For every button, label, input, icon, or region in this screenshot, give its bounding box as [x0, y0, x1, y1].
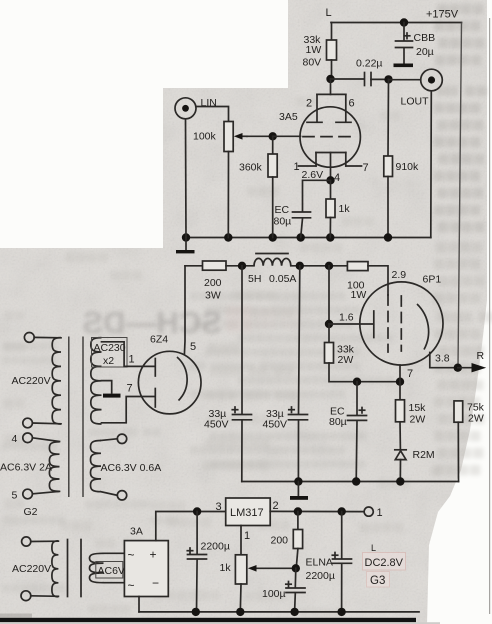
svg-text:−: −: [152, 576, 159, 590]
inductor choke 5H 0.05A: [248, 254, 296, 286]
svg-text:AC6.3V 2A: AC6.3V 2A: [0, 462, 52, 474]
wire bridge plus up: [156, 512, 226, 541]
node input cap dot: [193, 507, 201, 515]
regulator LM317: [226, 498, 271, 526]
node LOUT junction: [384, 75, 392, 83]
svg-text:3W: 3W: [205, 290, 221, 302]
cathode arc 6P1: [417, 304, 429, 350]
svg-text:3A: 3A: [130, 526, 143, 538]
capacitor 33u 450V first: [204, 266, 252, 482]
svg-text:+175V: +175V: [426, 9, 459, 21]
potentiometer 1k: [220, 555, 247, 584]
svg-text:6: 6: [349, 98, 355, 110]
winding AC6V: [90, 553, 104, 582]
svg-text:1W: 1W: [306, 44, 322, 56]
svg-text:CBB: CBB: [414, 32, 436, 44]
wire upper ground bus: [184, 237, 431, 239]
wire AC6V to bridge top: [104, 552, 125, 554]
wire 1k bottom to bus: [239, 584, 242, 612]
svg-text:2: 2: [306, 98, 312, 110]
bottom black strip: [0, 618, 416, 622]
svg-text:7: 7: [363, 162, 369, 174]
ground lower bus: [290, 482, 308, 500]
faint pink reverse-page title: [82, 305, 301, 340]
svg-text:1.6: 1.6: [339, 312, 354, 324]
resistor 200: [271, 512, 303, 569]
svg-text:LOUT: LOUT: [401, 96, 430, 108]
ground upper bus: [176, 238, 195, 254]
node grid 6P1: [325, 320, 333, 328]
node bus dot 910k ground: [384, 233, 392, 241]
node lower bus dot EC: [352, 477, 360, 485]
wire to choke: [226, 265, 254, 267]
svg-text:L: L: [371, 543, 376, 553]
capacitor ELNA 2200u: [306, 512, 352, 612]
terminal output 1: [364, 507, 373, 516]
svg-text:~: ~: [128, 579, 135, 593]
bridge rectifier 3A: [124, 526, 168, 597]
capacitor EC 80u lower: [329, 382, 367, 482]
transformer T2 terminal top: [22, 537, 31, 546]
svg-text:L: L: [326, 7, 332, 19]
capacitor 100u: [262, 568, 305, 612]
wire top supply rail: [331, 22, 462, 24]
diode R2M: [395, 449, 435, 482]
svg-text:1: 1: [294, 161, 300, 173]
svg-text:5H: 5H: [248, 273, 261, 285]
node EC dot: [353, 378, 361, 386]
wire terminal bottom: [32, 422, 61, 425]
pin 7 wire: [346, 165, 362, 167]
label box AC230 x2: [92, 338, 128, 368]
plate bar 2 6Z4: [154, 389, 156, 408]
wire cap to LOUT node: [371, 78, 389, 80]
node cathode junction: [326, 176, 334, 184]
wire winding to terminal bottom right: [101, 492, 117, 496]
svg-text:x2: x2: [103, 355, 114, 367]
node 200 dot: [294, 507, 302, 515]
transformer T2 terminal bottom: [21, 591, 31, 601]
svg-text:R2M: R2M: [413, 449, 435, 461]
transformer T1 primary terminal bottom: [23, 418, 33, 428]
jack LIN: [175, 97, 217, 119]
wire to winding: [31, 540, 59, 542]
node wiper dot: [292, 564, 300, 572]
svg-text:AC220V: AC220V: [12, 375, 51, 387]
svg-text:2200µ: 2200µ: [306, 570, 335, 582]
pin 1 wire: [299, 165, 317, 167]
resistor 75k 2W: [454, 401, 485, 482]
svg-text:360k: 360k: [239, 162, 263, 174]
wire cathode 6Z4 to rail: [183, 266, 186, 355]
plate bar 1 6Z4: [154, 359, 156, 377]
ground bar center tap: [103, 394, 121, 398]
wire to LOUT jack: [389, 79, 421, 81]
svg-text:80µ: 80µ: [274, 216, 292, 228]
winding AC220V primary T1: [52, 338, 61, 424]
grid1 bar 6P1: [373, 311, 375, 338]
wire secondary top to plate1: [102, 342, 155, 367]
wire LIN to pot: [196, 107, 229, 122]
node bus dot EC ground: [297, 233, 305, 241]
wire rail to tube top: [368, 266, 388, 295]
tube 6P1 envelope: [360, 282, 443, 365]
wire B+ rail from rectifier: [185, 265, 203, 267]
svg-text:AC6V: AC6V: [98, 565, 125, 577]
svg-text:+: +: [150, 548, 157, 562]
node bus dot 1k ground: [326, 233, 334, 241]
svg-text:100k: 100k: [193, 131, 217, 143]
wire bottom: [31, 595, 59, 598]
wire terminal 4: [32, 438, 59, 442]
resistor 100 1W screen: [347, 262, 368, 301]
svg-text:2200µ: 2200µ: [201, 541, 230, 553]
node anode junction: [326, 75, 334, 83]
svg-text:0.22µ: 0.22µ: [356, 58, 383, 70]
node lower bus dot R2M: [396, 477, 404, 485]
wire secondary bottom to plate2: [102, 397, 155, 423]
wire terminal to winding: [34, 336, 61, 338]
cathode arc 6Z4: [177, 357, 187, 401]
wiper arrow 1k: [248, 565, 296, 572]
svg-text:0.05A: 0.05A: [269, 273, 296, 285]
node bottom bus dot ELNA: [337, 608, 345, 616]
resistor 200 3W: [203, 261, 227, 302]
svg-text:R: R: [477, 350, 485, 362]
wire pot bottom to bus: [227, 152, 229, 238]
resistor 15k 2W: [396, 382, 427, 449]
svg-text:200: 200: [271, 535, 289, 547]
svg-text:2: 2: [273, 500, 279, 512]
winding AC220V T2: [52, 541, 59, 597]
node bus dot 360k ground: [269, 233, 277, 241]
faint vertical line right edge: [489, 18, 491, 614]
center tap wire: [102, 381, 112, 393]
wire rail to grid node: [328, 266, 330, 324]
svg-text:DC2.8V: DC2.8V: [365, 557, 404, 569]
svg-text:1: 1: [377, 507, 383, 519]
node rail dot C: [325, 262, 333, 270]
node output junction: [454, 364, 462, 372]
wire LIN ground down: [185, 119, 188, 238]
svg-text:6Z4: 6Z4: [150, 334, 168, 346]
svg-text:910k: 910k: [396, 161, 420, 173]
svg-text:G2: G2: [24, 506, 38, 518]
svg-text:1: 1: [129, 354, 135, 366]
node bottom bus dot 1k pot: [236, 608, 244, 616]
capacitor 2200u input: [187, 512, 230, 612]
resistor 360k: [239, 136, 277, 237]
svg-text:2.6V: 2.6V: [302, 169, 324, 181]
tube 6Z4 envelope: [138, 351, 201, 414]
wire cathode return: [357, 381, 400, 383]
node rail dot B: [296, 262, 304, 270]
node cathode dot: [396, 378, 404, 386]
svg-text:EC: EC: [275, 204, 290, 216]
wire LM317 adj: [240, 526, 242, 555]
jack LOUT: [401, 69, 443, 107]
svg-text:3A5: 3A5: [279, 111, 298, 123]
arrow R output: [458, 350, 486, 372]
wire bridge minus down: [138, 597, 140, 612]
resistor 1k cathode: [326, 180, 350, 237]
terminal heater bottom: [117, 491, 126, 500]
svg-text:LM317: LM317: [230, 507, 264, 519]
svg-text:7: 7: [127, 383, 133, 395]
wiper arrow into pot: [234, 133, 273, 140]
wire lower ground bus: [242, 481, 459, 483]
terminal heater top: [117, 434, 126, 443]
svg-text:450V: 450V: [263, 419, 288, 431]
svg-text:20µ: 20µ: [416, 46, 434, 58]
wire AC6V to bridge bottom: [104, 582, 125, 584]
grid dashed 3A5: [303, 136, 356, 138]
svg-text:80µ: 80µ: [329, 416, 347, 428]
svg-text:6P1: 6P1: [423, 274, 442, 286]
svg-text:4: 4: [334, 172, 340, 184]
resistor 33k 2W: [325, 324, 358, 382]
resistor 33k 1W 80V: [303, 23, 337, 77]
node grid junction: [269, 132, 277, 140]
wire right vertical +175V feed: [458, 23, 462, 369]
node bottom bus dot 2200u: [192, 608, 200, 616]
wire grid node to 6P1: [329, 323, 373, 325]
svg-text:80V: 80V: [303, 57, 322, 69]
svg-text:3: 3: [216, 501, 222, 513]
svg-text:AC6.3V 0.6A: AC6.3V 0.6A: [101, 462, 162, 474]
svg-text:3.8: 3.8: [435, 353, 450, 365]
wire grid to 3A5: [273, 135, 301, 137]
node rail dot A: [238, 262, 246, 270]
filament structure 3A5: [316, 153, 346, 181]
capacitor 0.22u: [356, 58, 383, 86]
winding AC6.3V 0.6A: [91, 441, 102, 492]
core T2: [67, 540, 69, 597]
wire choke to rail: [291, 265, 348, 267]
svg-text:450V: 450V: [204, 419, 229, 431]
capacitor CBB 20u: [396, 23, 436, 64]
wire terminal 5: [32, 491, 59, 493]
tube 3A5 envelope: [300, 107, 360, 167]
svg-text:200: 200: [204, 277, 222, 289]
grid3 dashed 6P1: [400, 296, 402, 351]
terminal 5: [23, 489, 33, 499]
node bus dot pot ground: [224, 233, 232, 241]
winding AC6.3V 2A: [49, 442, 59, 492]
svg-text:15k: 15k: [409, 402, 427, 414]
svg-text:1W: 1W: [351, 289, 367, 301]
label DC2.8V: [363, 553, 406, 571]
svg-text:G3: G3: [370, 575, 385, 587]
svg-text:7: 7: [407, 368, 413, 380]
wire bottom ground bus: [139, 611, 419, 613]
node junction top: [400, 18, 408, 26]
svg-text:5: 5: [12, 490, 18, 502]
node ELNA dot: [338, 507, 346, 515]
wire winding to terminal top right: [101, 439, 117, 441]
svg-text:4: 4: [12, 433, 18, 445]
terminal 4: [23, 433, 33, 443]
svg-text:2W: 2W: [338, 354, 354, 366]
resistor 910k: [384, 79, 419, 237]
wire LM317 output: [270, 510, 364, 512]
svg-text:5: 5: [190, 341, 196, 353]
svg-text:AC220V: AC220V: [12, 563, 51, 575]
svg-text:~: ~: [128, 548, 135, 562]
anode structure 3A5: [307, 79, 351, 122]
capacitor 33u 450V second: [263, 266, 308, 482]
svg-text:2W: 2W: [468, 413, 484, 425]
wire cathode out 3.8: [430, 353, 458, 368]
svg-text:1k: 1k: [220, 562, 232, 574]
node bus dot LIN ground: [182, 233, 190, 241]
label G3: [367, 572, 390, 588]
capacitor EC 80u upper: [274, 204, 311, 238]
core T1: [68, 337, 70, 498]
potentiometer 100k: [193, 122, 233, 152]
winding AC230 secondary: [91, 338, 102, 424]
wire 6P1 pin7: [399, 365, 401, 382]
svg-text:2.9: 2.9: [392, 269, 407, 281]
red stamp: [363, 543, 406, 587]
wire to coupling cap: [331, 78, 365, 80]
transformer T1 primary terminal top: [24, 333, 34, 343]
svg-text:AC230: AC230: [94, 342, 126, 354]
svg-text:ELNA: ELNA: [306, 557, 333, 569]
node lower bus dot ground stub: [294, 477, 302, 485]
wire LOUT ground side down: [430, 91, 433, 238]
svg-text:1k: 1k: [339, 203, 351, 215]
node bottom bus dot 100u: [290, 608, 298, 616]
svg-text:2W: 2W: [410, 414, 426, 426]
ground bar below CBB: [394, 64, 414, 68]
svg-text:100µ: 100µ: [262, 588, 286, 600]
label box AC6V: [96, 562, 125, 579]
grid2 dashed 6P1: [387, 295, 389, 352]
wire cathode to EC cap: [303, 180, 331, 211]
svg-text:1: 1: [244, 530, 250, 542]
